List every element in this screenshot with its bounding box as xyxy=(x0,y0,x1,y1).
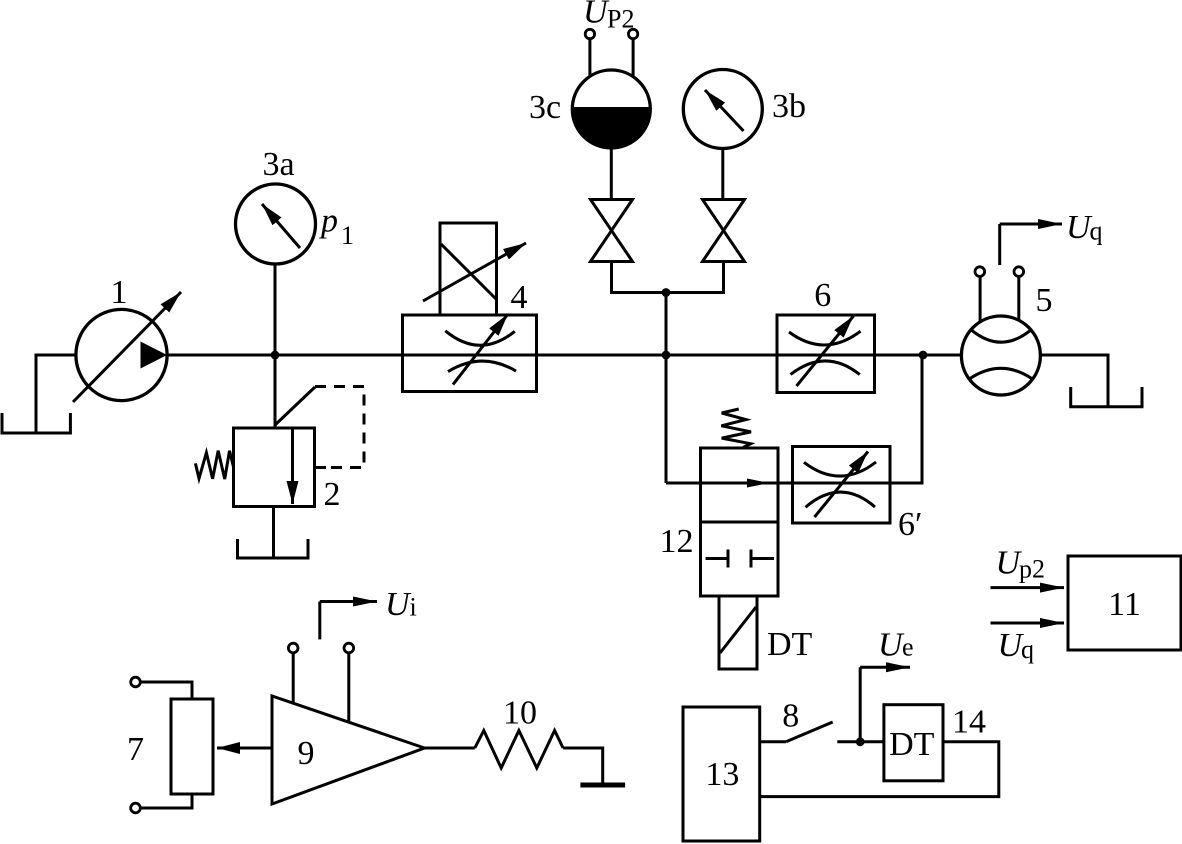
wire: terminals to accumulator 3c xyxy=(588,39,591,77)
potentiometer 7 body xyxy=(171,699,213,794)
wire: pump suction xyxy=(36,355,76,433)
wire and arrow to U_i xyxy=(318,602,321,640)
wire: main pressure bus xyxy=(167,354,962,357)
svg-text:p: p xyxy=(319,203,338,240)
arrow U_q into box 11 xyxy=(991,622,1065,625)
svg-text:1: 1 xyxy=(111,274,128,311)
valve 12 closed-port symbol right xyxy=(751,557,774,560)
svg-text:q: q xyxy=(1090,217,1103,246)
svg-text:7: 7 xyxy=(127,731,144,768)
wire: potentiometer bottom terminal xyxy=(141,794,193,808)
node: junction before DT 14 xyxy=(856,737,865,746)
accumulator 3c chord line xyxy=(572,107,650,110)
wire: DT box 14 return loop to box 13 xyxy=(760,742,999,797)
tank right of flow meter xyxy=(1071,387,1142,407)
accumulator 3c circle xyxy=(572,70,650,148)
svg-text:U: U xyxy=(385,586,412,623)
wire: right shutoff valve to node A xyxy=(666,262,724,293)
amplifier 9 triangle xyxy=(272,696,425,804)
accumulator 3c black lower half xyxy=(572,109,650,148)
svg-text:e: e xyxy=(902,633,914,662)
valve 6 box xyxy=(777,315,875,393)
svg-text:U: U xyxy=(583,0,610,31)
svg-text:14: 14 xyxy=(952,704,986,741)
shutoff valve under 3b (bowtie) xyxy=(703,200,745,231)
wire: flow meter terminals xyxy=(979,277,982,323)
valve 4 solenoid arrow xyxy=(423,243,526,301)
gauge 3a needle xyxy=(262,204,300,248)
svg-text:6′: 6′ xyxy=(898,506,922,543)
switch 8 blade xyxy=(786,722,833,742)
terminal circles of amplifier 9 xyxy=(288,643,298,653)
node: bus junction center xyxy=(662,351,671,360)
valve 4 solenoid box xyxy=(440,223,497,315)
valve 4 throttle top arc xyxy=(445,331,515,345)
svg-text:13: 13 xyxy=(705,756,739,793)
pump P1 circle xyxy=(76,309,167,400)
relief valve 2 spring xyxy=(195,451,233,479)
wiper arrow from amplifier 9 xyxy=(217,747,272,750)
wire: bus from flow meter to tank corner xyxy=(1040,355,1108,407)
gauge 3b needle xyxy=(705,90,744,131)
wire: gauge 3a to bus xyxy=(274,264,277,355)
tank under pump xyxy=(2,413,70,433)
valve 4 solenoid diagonal xyxy=(441,244,496,299)
valve 6 bottom arc xyxy=(791,361,860,375)
pump variable arrow xyxy=(73,292,181,402)
relief valve 2 pilot diagonal xyxy=(275,387,315,425)
valve 6' box xyxy=(793,447,891,524)
wire: accumulator 3c down to shutoff valve xyxy=(610,148,613,200)
box 13 xyxy=(683,707,760,841)
svg-text:U: U xyxy=(878,626,905,663)
node: bus junction right xyxy=(919,351,928,360)
wire: left shutoff valve to node A xyxy=(612,262,667,293)
terminal circles of accumulator 3c xyxy=(585,29,594,38)
wire: bus down to valve 12 branch xyxy=(665,355,668,483)
wire: switch 8 to junction xyxy=(837,740,860,743)
svg-text:10: 10 xyxy=(503,695,537,732)
valve 6' top arc xyxy=(804,462,876,476)
svg-text:DT: DT xyxy=(767,626,813,663)
valve 4 throttle arrow xyxy=(453,314,508,385)
valve 12 spring xyxy=(721,409,751,448)
node A junction dot xyxy=(662,288,671,297)
valve 12 solenoid DT box xyxy=(719,596,757,669)
valve 12 closed-port symbol left xyxy=(706,557,729,560)
wire: potentiometer top terminal xyxy=(141,682,193,699)
wire: node A down to bus xyxy=(665,293,668,356)
wire: amplifier terminal leads xyxy=(292,653,295,704)
valve 4 main box xyxy=(403,315,537,392)
valve 6 arrow xyxy=(797,316,854,386)
node: bus junction at gauge 3a xyxy=(271,351,280,360)
wire: relief valve 2 to tank xyxy=(272,507,275,559)
svg-text:2: 2 xyxy=(324,476,341,513)
svg-text:6: 6 xyxy=(814,277,831,314)
svg-text:3b: 3b xyxy=(772,88,806,125)
flow meter 5 bottom arc xyxy=(969,368,1032,379)
svg-text:3a: 3a xyxy=(262,146,294,183)
wire and arrow to U_q xyxy=(998,224,1001,265)
svg-text:11: 11 xyxy=(1108,586,1141,623)
terminal circles of potentiometer 7 xyxy=(131,677,141,687)
gauge 3a circle xyxy=(236,184,316,264)
svg-text:1: 1 xyxy=(341,221,354,250)
svg-text:DT: DT xyxy=(889,726,935,763)
svg-text:3c: 3c xyxy=(529,89,561,126)
relief valve 2 body xyxy=(234,428,315,507)
svg-text:9: 9 xyxy=(298,735,315,772)
valve 12 solenoid diagonal xyxy=(720,607,756,653)
wire: bus down to relief valve 2 xyxy=(274,355,277,428)
wire: branch line through valve 12 and 6' xyxy=(666,355,922,483)
wire: box 13 to switch 8 xyxy=(760,740,786,743)
valve 12 upper position box xyxy=(701,448,779,522)
svg-text:8: 8 xyxy=(782,698,799,735)
ground symbol xyxy=(580,783,625,788)
wire and arrow to U_e xyxy=(859,667,862,742)
svg-text:i: i xyxy=(410,593,417,622)
relief valve 2 pilot dashed line xyxy=(315,387,364,468)
valve 6 top arc xyxy=(789,331,861,345)
svg-text:5: 5 xyxy=(1036,282,1053,319)
svg-text:P2: P2 xyxy=(607,5,634,34)
shutoff valve under 3c (bowtie) xyxy=(591,200,633,231)
svg-text:4: 4 xyxy=(511,279,528,316)
valve 6' bottom arc xyxy=(806,492,876,507)
flow meter 5 top arc xyxy=(972,330,1031,342)
valve 6' arrow xyxy=(815,452,869,518)
DT box 14 xyxy=(884,705,943,781)
valve 4 throttle bottom arc xyxy=(448,361,516,372)
arrow U_p2 into box 11 xyxy=(991,586,1065,589)
relief valve 2 internal flow arrow xyxy=(291,428,294,504)
valve 12 lower position box xyxy=(701,522,779,596)
svg-text:q: q xyxy=(1021,635,1034,664)
wire: gauge 3b down to shutoff valve xyxy=(721,149,724,200)
gauge 3b circle xyxy=(683,70,762,149)
wire: junction to DT box 14 xyxy=(860,740,884,743)
valve 12 through-flow arrowhead xyxy=(747,479,769,488)
resistor 10 zigzag xyxy=(475,731,563,769)
tank under relief valve 2 xyxy=(238,539,309,558)
svg-text:p2: p2 xyxy=(1019,555,1045,584)
relief valve 2 pilot stub xyxy=(315,466,327,469)
svg-text:12: 12 xyxy=(660,523,694,560)
flow meter 5 circle xyxy=(961,316,1040,395)
wire: amplifier output to resistor 10 xyxy=(425,747,475,750)
pump flow triangle xyxy=(141,342,168,369)
wire: resistor 10 to ground xyxy=(563,748,603,783)
box 11 xyxy=(1068,556,1181,650)
terminal circles of flow meter 5 xyxy=(975,267,985,277)
